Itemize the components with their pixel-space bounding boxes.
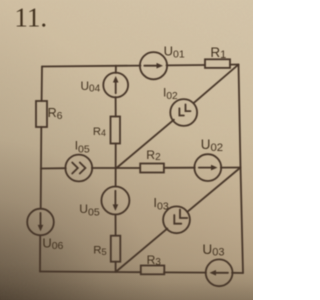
label U03 (202, 242, 224, 259)
source U04 (103, 73, 128, 98)
current source I03 (163, 206, 190, 233)
label U06 (42, 236, 63, 253)
resistor R3 (141, 266, 165, 275)
resistor R4 (111, 117, 121, 144)
source U01 (140, 52, 167, 79)
wire right (node 2 to node 8) (239, 65, 244, 274)
resistor R1 (205, 59, 230, 68)
wire diagonal I02 (node 4 to node 2) (117, 65, 239, 169)
label U04 (81, 79, 101, 95)
label I03 (153, 195, 168, 213)
label R4 (93, 126, 106, 138)
svg-text:R4: R4 (93, 126, 106, 138)
current source I02 (170, 99, 197, 126)
label R2 (146, 148, 161, 163)
source U02 (194, 154, 221, 181)
label U01 (164, 44, 185, 61)
source U06 (27, 209, 54, 236)
wire bottom (node 7 to node 8) (40, 272, 243, 274)
label U05 (79, 202, 100, 219)
resistor R6 (36, 101, 47, 127)
paper grain overlay (0, 0, 253, 300)
resistor R2 (140, 164, 164, 173)
label I02 (163, 85, 178, 102)
label R6 (48, 106, 63, 122)
wire middle horizontal (node 3 to node 5) (41, 168, 241, 169)
svg-text:11.: 11. (14, 3, 47, 33)
svg-text:R5: R5 (93, 245, 107, 258)
source U05 (101, 187, 129, 215)
label R3 (147, 253, 162, 268)
wire middle vertical (node 1a to node 7a) (115, 66, 117, 272)
wire diagonal I03 (node 7a to node 5) (116, 168, 241, 273)
label I05 (75, 138, 90, 155)
label R1 (210, 45, 226, 61)
current source I05 (65, 155, 92, 182)
source U03 (206, 259, 233, 286)
label 11. (14, 3, 47, 33)
label R5 (93, 245, 107, 258)
resistor R5 (111, 236, 121, 262)
label U02 (201, 137, 223, 154)
wire left (node 1 to node 7) (40, 67, 42, 272)
wire top (node 1 to node 2) (42, 65, 239, 67)
